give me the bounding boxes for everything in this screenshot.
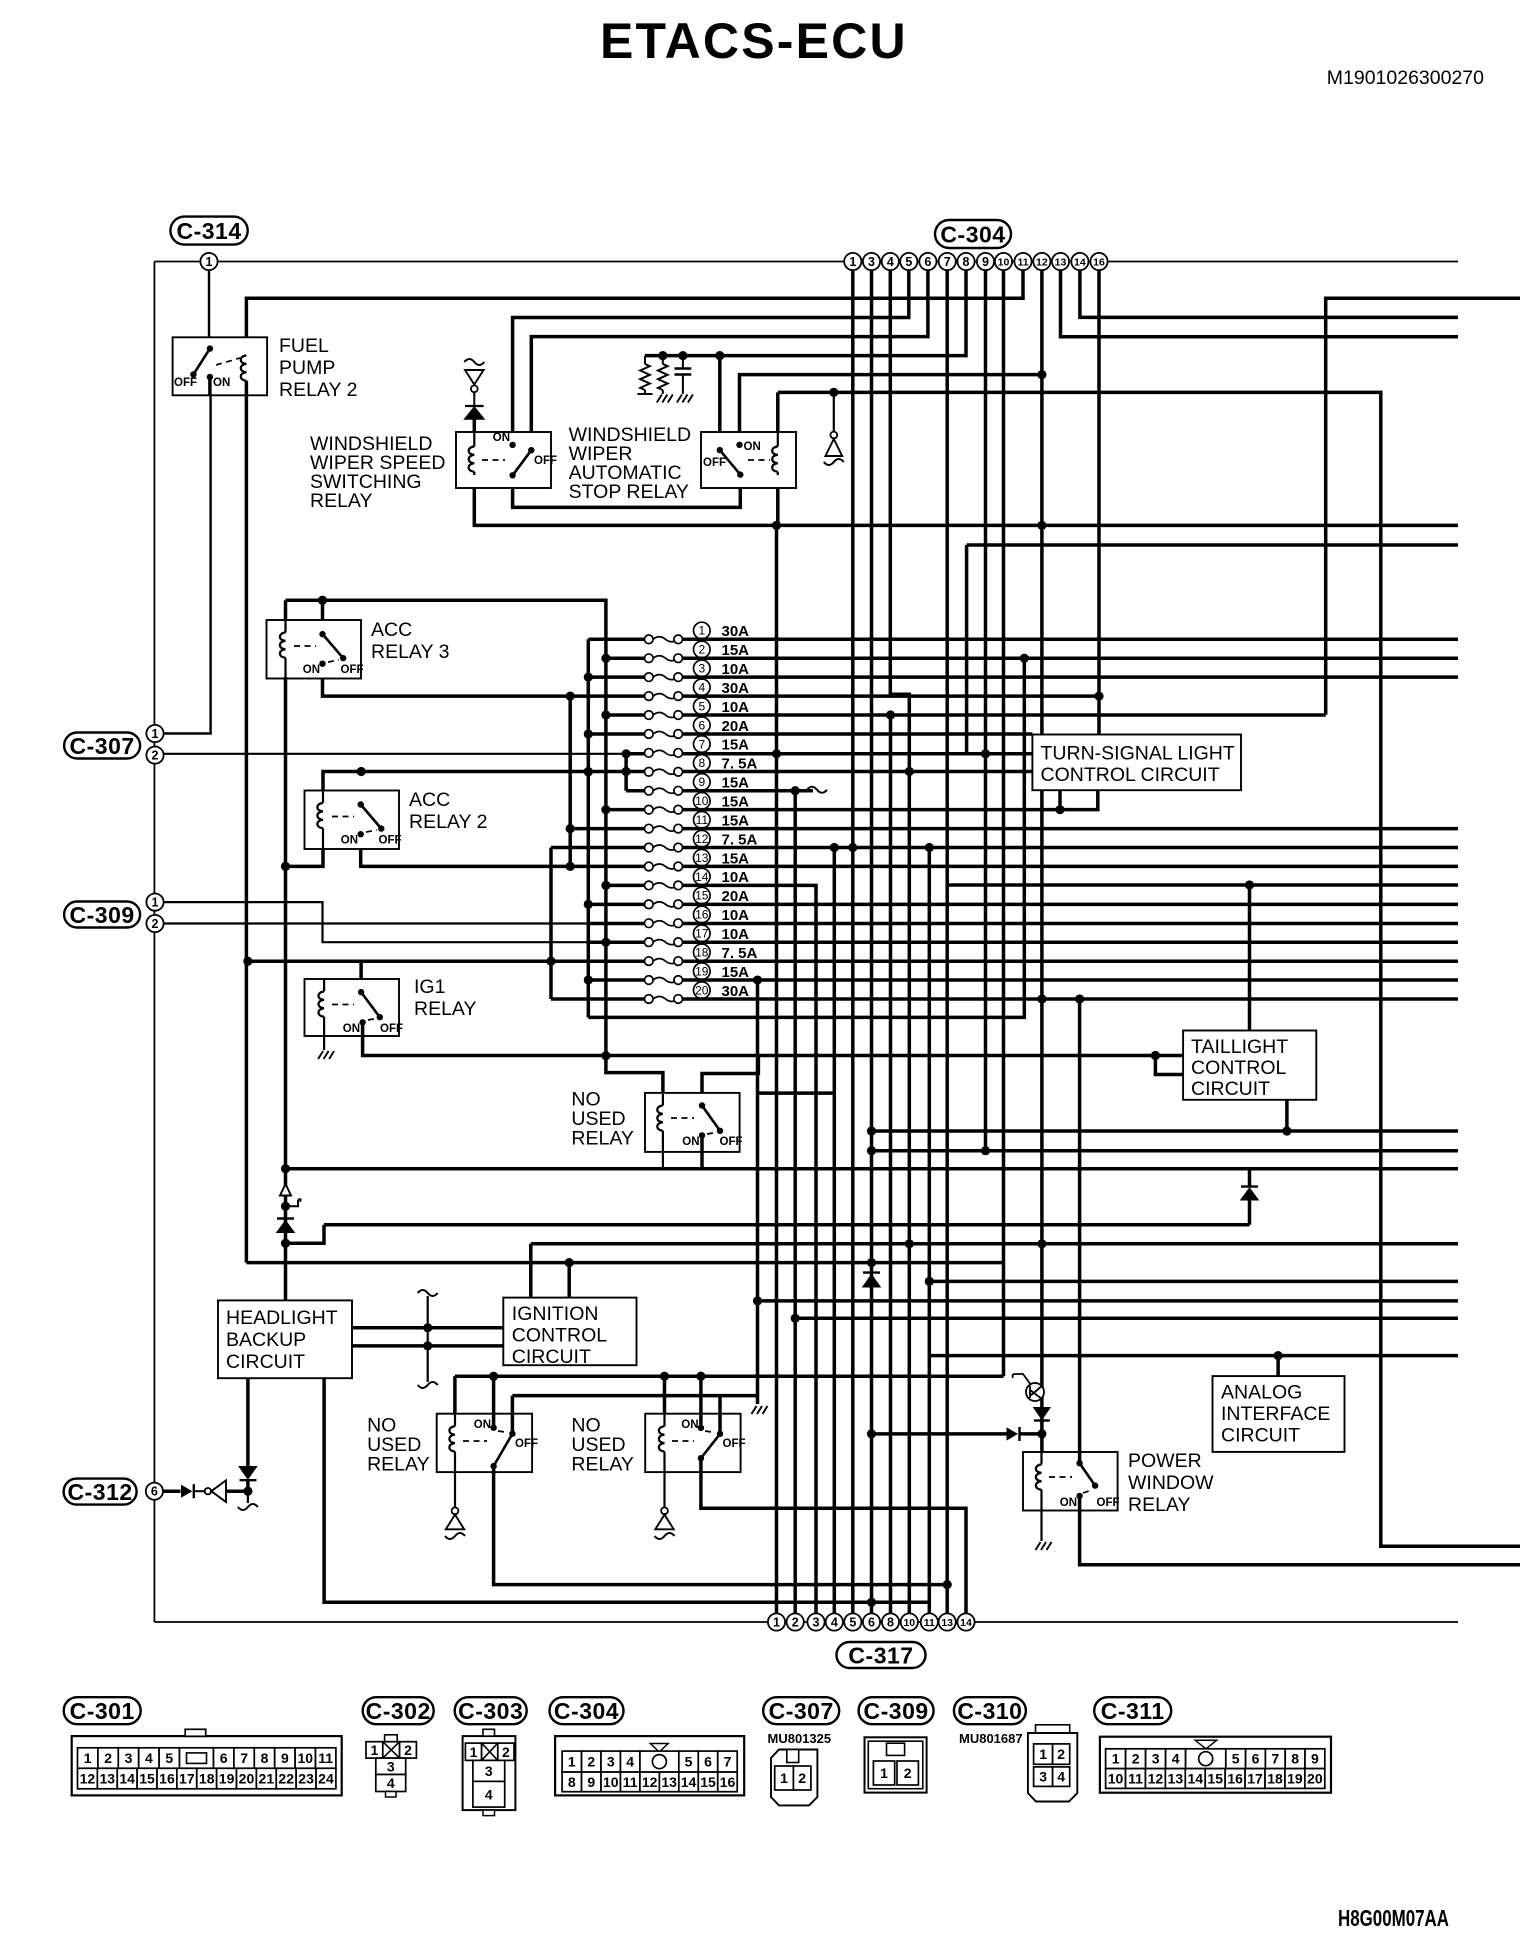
svg-text:C-307: C-307 <box>769 1698 834 1724</box>
junction <box>601 710 610 719</box>
wire power window ON to right page edge <box>1080 1496 1520 1565</box>
svg-text:ON: ON <box>744 441 761 453</box>
pin 8 <box>882 1613 899 1630</box>
junction ACC relay3 pivot drop <box>318 596 327 605</box>
fuse 10 (15A) <box>645 793 750 814</box>
wire C-304 pin16 column to turn-signal box <box>1097 270 1101 735</box>
wire relay3 pivot drop <box>718 1396 722 1434</box>
wire trunk x=626 fuse7 to fuse9 <box>624 754 628 791</box>
svg-text:6: 6 <box>924 255 931 269</box>
junction <box>584 900 593 909</box>
svg-text:CIRCUIT: CIRCUIT <box>512 1346 591 1368</box>
relay: ACC relay 3 <box>267 620 362 679</box>
wire headlight to ignition link1 <box>352 1326 503 1330</box>
svg-text:9: 9 <box>587 1774 595 1790</box>
svg-text:CONTROL: CONTROL <box>1191 1057 1286 1079</box>
svg-text:10: 10 <box>998 256 1010 268</box>
svg-text:18: 18 <box>199 1771 215 1787</box>
svg-text:8: 8 <box>261 1750 269 1766</box>
fuse 2 (15A) <box>645 641 750 662</box>
svg-text:2: 2 <box>152 749 159 763</box>
box turn-signal light control circuit <box>1032 735 1241 791</box>
fuse 3 (10A) <box>645 660 750 681</box>
connector label C-314 <box>170 217 247 245</box>
connector label C-302 <box>363 1697 434 1724</box>
junction fuse4 trunk570 <box>566 691 575 700</box>
wire top border bus y=262 <box>154 261 1458 263</box>
svg-text:OFF: OFF <box>515 1438 538 1450</box>
junction y1263 ignition box pin <box>565 1258 574 1267</box>
svg-text:RELAY: RELAY <box>367 1454 430 1476</box>
wire C-304 pin1 column x=853 <box>851 270 855 1614</box>
wire column x=776 to C-317 pin1 <box>775 525 779 1613</box>
junction y525 column1042 <box>1037 521 1046 530</box>
svg-text:ON: ON <box>493 432 510 444</box>
wire fuse3 row <box>588 675 1458 679</box>
svg-text:1: 1 <box>1039 1746 1047 1762</box>
junction column871 y1131 <box>867 1126 876 1135</box>
svg-text:7: 7 <box>1271 1751 1279 1767</box>
svg-text:4: 4 <box>1057 1769 1065 1785</box>
pin 11 <box>1014 253 1031 270</box>
fuse 14 (10A) <box>645 868 750 889</box>
svg-text:5: 5 <box>849 1616 856 1630</box>
pin 1 <box>768 1613 785 1630</box>
svg-text:10A: 10A <box>722 907 750 924</box>
no used relay 2/3 coil-bottom branch symbols <box>454 1472 456 1507</box>
svg-text:1: 1 <box>780 1770 788 1786</box>
pin 12 <box>1033 253 1050 270</box>
junction <box>584 975 593 984</box>
wire column x=966 y545 to fuse7 row <box>965 545 969 754</box>
wire fuse8 row from ACC relay2 coil to turn-signal box <box>323 772 1032 830</box>
svg-text:IG1: IG1 <box>414 976 445 998</box>
wire C-304 pin7 column x=947 <box>945 270 949 1614</box>
svg-text:10: 10 <box>603 1774 619 1790</box>
svg-text:1: 1 <box>206 255 213 269</box>
wire stop relay ON to column1042 <box>740 375 1042 445</box>
svg-text:17: 17 <box>695 927 709 941</box>
svg-text:RELAY: RELAY <box>571 1127 634 1149</box>
svg-text:ON: ON <box>681 1419 698 1431</box>
junction fuse12 column929 <box>925 843 934 852</box>
junction fuse7 trunk626 <box>622 749 631 758</box>
relay: no used relay 2 (center bottom) <box>437 1414 532 1472</box>
svg-text:MU801325: MU801325 <box>768 1731 832 1746</box>
svg-text:3: 3 <box>485 1763 493 1779</box>
wire relay3 coil drop <box>663 1376 667 1415</box>
pin 10 <box>995 253 1012 270</box>
wire C-304 pin4 column jog to x=909 <box>890 270 909 1614</box>
svg-text:ACC: ACC <box>371 619 412 641</box>
connector label C-307 bottom <box>763 1697 839 1724</box>
wire C-304 pin3 column x=871 <box>870 270 874 1614</box>
svg-text:3: 3 <box>1039 1769 1047 1785</box>
svg-text:20: 20 <box>239 1771 255 1787</box>
svg-text:1: 1 <box>568 1754 576 1770</box>
wire C-304 pin14 to right y=317 <box>1080 270 1458 317</box>
box taillight control circuit <box>1183 1031 1316 1100</box>
svg-text:2: 2 <box>587 1754 595 1770</box>
svg-text:15: 15 <box>1207 1771 1223 1787</box>
junction fuse7 column985 <box>981 749 990 758</box>
svg-text:11: 11 <box>1128 1771 1143 1787</box>
svg-text:19: 19 <box>219 1771 235 1787</box>
fuse 19 (15A) <box>645 963 750 984</box>
svg-text:BACKUP: BACKUP <box>226 1329 306 1351</box>
wire trunk x=588 <box>587 639 591 1017</box>
pin C-307-2 <box>146 747 163 764</box>
wire relay2 ON drop <box>492 1376 496 1428</box>
svg-text:14: 14 <box>681 1774 697 1790</box>
svg-text:8: 8 <box>698 756 705 770</box>
svg-text:13: 13 <box>1055 256 1067 268</box>
svg-text:1: 1 <box>849 255 856 269</box>
connector label C-304 bottom <box>550 1697 624 1724</box>
junction stop relay pivot on y=355 <box>715 351 724 360</box>
wire no-used relays feed row y=1376 <box>455 1376 1004 1415</box>
relay: ACC relay 2 <box>305 791 400 850</box>
svg-text:22: 22 <box>278 1771 294 1787</box>
wire fuse10 row to turn-signal box pins <box>606 808 1060 812</box>
svg-text:ANALOG: ANALOG <box>1221 1382 1302 1404</box>
svg-text:15A: 15A <box>722 737 750 754</box>
svg-text:18: 18 <box>1267 1771 1283 1787</box>
svg-text:13: 13 <box>661 1774 677 1790</box>
svg-text:11: 11 <box>1017 256 1028 268</box>
junction trunk286 key tap <box>281 1202 290 1211</box>
svg-text:4: 4 <box>485 1786 493 1802</box>
svg-text:12: 12 <box>695 832 709 846</box>
wire power window pivot column x=1080 <box>1078 999 1082 1463</box>
wire bus y=1301 <box>758 1299 1459 1303</box>
junction analog box pin <box>1274 1351 1283 1360</box>
ground IG1 relay coil <box>318 1051 323 1059</box>
wire fuse11 row <box>570 827 1458 831</box>
wire IG1 ON row y=1056 to taillight box <box>363 1022 1184 1055</box>
wire fuse4 row from ACC relay3 ON <box>323 664 1100 696</box>
wire no-used relay1 pivot feed from y=1056 bus <box>702 1056 758 1106</box>
connector label C-307 left <box>64 733 140 759</box>
svg-text:13: 13 <box>1168 1771 1184 1787</box>
junction fuse9 column795 <box>791 786 800 795</box>
junction y1244 column909 <box>905 1239 914 1248</box>
wire column x=929 to C-317 pin11 <box>928 848 932 1614</box>
junction <box>696 1372 705 1381</box>
svg-text:17: 17 <box>179 1771 195 1787</box>
resistor R2 <box>662 356 664 364</box>
svg-text:19: 19 <box>695 964 709 978</box>
junction fuse8 column909 <box>905 767 914 776</box>
transistor symbol on power window feed <box>1026 1383 1044 1401</box>
svg-text:OFF: OFF <box>723 1438 746 1450</box>
wire relay pivots row y=1396 <box>512 1396 757 1434</box>
svg-text:6: 6 <box>704 1754 712 1770</box>
svg-text:3: 3 <box>1152 1751 1160 1767</box>
svg-text:6: 6 <box>151 1485 158 1499</box>
fuse 15 (20A) <box>645 887 750 908</box>
svg-text:OFF: OFF <box>379 835 402 847</box>
junction fuse4 column1099 <box>1094 691 1103 700</box>
junction link2 tap <box>423 1341 432 1350</box>
junction fuse17 trunk606 <box>601 938 610 947</box>
wire fuse19 row <box>588 978 1458 982</box>
svg-text:FUEL: FUEL <box>279 335 329 357</box>
svg-text:OFF: OFF <box>703 457 726 469</box>
junction fuse13 trunk570 <box>566 862 575 871</box>
wire no-used relay1 ON to y=1169 bus <box>700 1135 704 1168</box>
fuse 8 (7.5A) <box>645 755 758 776</box>
pin 16 <box>1090 253 1107 270</box>
diode below transistor <box>1034 1408 1050 1420</box>
svg-text:ON: ON <box>1060 1497 1077 1509</box>
svg-text:CIRCUIT: CIRCUIT <box>1221 1425 1300 1447</box>
connector label C-311 <box>1094 1697 1171 1724</box>
svg-text:CONTROL: CONTROL <box>512 1325 607 1347</box>
svg-text:5: 5 <box>1232 1751 1240 1767</box>
svg-text:C-303: C-303 <box>458 1698 523 1724</box>
svg-text:4: 4 <box>698 680 705 694</box>
junction column757 y1301 <box>753 1296 762 1305</box>
svg-text:10: 10 <box>695 794 709 808</box>
svg-text:3: 3 <box>387 1758 395 1774</box>
fuse 11 (15A) <box>645 812 750 833</box>
box ignition control circuit <box>503 1298 636 1366</box>
svg-text:5: 5 <box>698 699 705 713</box>
relay: windshield wiper automatic stop relay <box>701 432 796 488</box>
svg-text:STOP RELAY: STOP RELAY <box>569 481 689 503</box>
pin 3 <box>863 253 880 270</box>
svg-text:2: 2 <box>1057 1746 1065 1762</box>
wire bus y=1225 <box>324 1223 1250 1227</box>
wire branch y=885 to right <box>947 883 1458 887</box>
svg-text:TAILLIGHT: TAILLIGHT <box>1191 1036 1288 1058</box>
svg-text:8: 8 <box>963 255 970 269</box>
svg-text:1: 1 <box>152 896 159 910</box>
junction y885 taillight drop <box>1245 880 1254 889</box>
junction trunk246 x fuse18 row <box>243 957 252 966</box>
junction y1151 column985 <box>981 1146 990 1155</box>
svg-text:1: 1 <box>880 1765 888 1781</box>
wire relay arms link U-shape <box>513 475 741 508</box>
svg-text:IGNITION: IGNITION <box>512 1303 599 1325</box>
svg-text:1: 1 <box>371 1742 379 1758</box>
pin C-307-1 <box>146 725 163 742</box>
pin 13 <box>1052 253 1069 270</box>
relay: power window relay <box>1023 1452 1118 1511</box>
svg-text:2: 2 <box>152 917 159 931</box>
fuse 4 (30A) <box>645 679 750 700</box>
svg-text:17: 17 <box>1247 1771 1263 1787</box>
wire column x=757 fuse19 to ground <box>756 980 760 1404</box>
fuse 18 (7.5A) <box>645 944 758 965</box>
junction column947 y1585 <box>943 1580 952 1589</box>
svg-text:M1901026300270: M1901026300270 <box>1327 67 1484 89</box>
svg-text:7: 7 <box>240 1750 248 1766</box>
svg-text:CIRCUIT: CIRCUIT <box>1191 1078 1270 1100</box>
wire taillight box bottom pin <box>1285 1100 1289 1131</box>
svg-text:RELAY: RELAY <box>414 998 477 1020</box>
junction link1 tap <box>423 1323 432 1332</box>
svg-text:11: 11 <box>696 813 709 827</box>
svg-text:C-309: C-309 <box>864 1698 929 1724</box>
junction fuse8 trunk626 <box>622 767 631 776</box>
wire fuse12 row <box>551 846 1458 850</box>
connector label C-309 bottom <box>859 1697 934 1724</box>
svg-text:8: 8 <box>1291 1751 1299 1767</box>
svg-text:2: 2 <box>904 1765 912 1781</box>
junction <box>601 881 610 890</box>
svg-text:4: 4 <box>145 1750 153 1766</box>
connector label C-317 bottom <box>837 1642 926 1668</box>
wire bus y=545 to right <box>967 543 1458 547</box>
svg-text:C-314: C-314 <box>176 218 241 244</box>
wire stop relay coil bottom <box>776 469 780 525</box>
wire fuse13 row from ACC relay2 ON <box>361 834 1458 866</box>
svg-text:1: 1 <box>470 1744 478 1760</box>
fuse 9 (15A) <box>645 774 750 795</box>
wire headlight backup leg to y=1602 bus <box>324 1378 929 1602</box>
svg-text:ON: ON <box>682 1136 699 1148</box>
fuse 1 (30A) <box>645 622 750 643</box>
svg-text:19: 19 <box>1287 1771 1303 1787</box>
svg-text:11: 11 <box>318 1750 333 1766</box>
wire y=1434 to power window coil <box>872 1432 1007 1436</box>
svg-text:15: 15 <box>139 1771 155 1787</box>
junction <box>584 767 593 776</box>
svg-text:10A: 10A <box>722 926 750 943</box>
svg-text:16: 16 <box>720 1774 736 1790</box>
wire ACC relay2 coil bottom to trunk286 <box>286 848 324 866</box>
svg-text:5: 5 <box>685 1754 693 1770</box>
wire C-304 pin10 column x=1003 <box>1002 270 1006 1376</box>
wire C-307 pin2 lead <box>164 753 627 755</box>
connector-branch symbol below y392 (circle, open triangle up, hook) <box>833 392 835 431</box>
pin C-309-2 <box>146 915 163 932</box>
pin 8 <box>957 253 974 270</box>
wire bus y=1169 <box>286 1167 1459 1171</box>
svg-text:ETACS-ECU: ETACS-ECU <box>600 13 908 69</box>
wire fuse5 row to right feed <box>606 713 1326 717</box>
junction <box>584 729 593 738</box>
svg-text:20: 20 <box>695 983 709 997</box>
wire drop to ignition control box pin2 <box>567 1263 571 1298</box>
relay: no used relay 1 (right of IG1) <box>645 1093 740 1152</box>
wire fuse16 row <box>588 922 1458 926</box>
wire fuse2 row <box>606 656 1458 660</box>
pin 5 <box>900 253 917 270</box>
wire trunk x=551 <box>549 848 553 999</box>
relay: windshield wiper speed switching relay <box>456 432 551 488</box>
junction trunk286 y1169 <box>281 1164 290 1173</box>
svg-text:10: 10 <box>903 1617 915 1629</box>
svg-text:7. 5A: 7. 5A <box>722 945 758 962</box>
svg-text:OFF: OFF <box>720 1136 743 1148</box>
wire stop relay pivot feed <box>718 356 722 451</box>
wire C-304 pin12 column x=1042 <box>1040 270 1044 1244</box>
pin C-312-6 <box>146 1483 163 1500</box>
wire bus y=1017 to column1024 <box>588 658 1024 1018</box>
svg-text:14: 14 <box>695 870 709 884</box>
wire fuse9 row <box>626 789 813 793</box>
wire left border bus x=154 <box>153 262 155 1623</box>
relay: no used relay 3 (right bottom) <box>645 1414 740 1472</box>
svg-text:RELAY: RELAY <box>1128 1494 1191 1516</box>
svg-text:PUMP: PUMP <box>279 357 335 379</box>
junction <box>601 654 610 663</box>
junction fuse20 column1042 <box>1037 994 1046 1003</box>
svg-text:16: 16 <box>1093 256 1105 268</box>
wire ACC relay3 pivot drop <box>321 600 325 634</box>
svg-text:6: 6 <box>698 718 705 732</box>
junction column871 y1434 <box>867 1429 876 1438</box>
pin 13 <box>939 1613 956 1630</box>
junction column795 y1318 <box>791 1314 800 1323</box>
wire bus y=1318 <box>795 1317 1458 1321</box>
wire bus y=1281 <box>929 1280 1458 1284</box>
pin 6 <box>919 253 936 270</box>
svg-text:1: 1 <box>1112 1751 1120 1767</box>
wire trunk x=570 <box>568 696 572 866</box>
svg-text:C-307: C-307 <box>70 733 135 759</box>
wire C-304 pin5 to wiper speed relay ON <box>513 270 909 445</box>
svg-text:7: 7 <box>944 255 951 269</box>
ground power window relay coil <box>1036 1542 1041 1550</box>
svg-text:13: 13 <box>695 851 709 865</box>
wire bus y=1131 <box>872 1129 1459 1133</box>
svg-text:C-317: C-317 <box>848 1642 913 1668</box>
tap stub with continuation hooks <box>427 1296 429 1382</box>
svg-text:4: 4 <box>887 255 894 269</box>
wire relay2 arm to C-317 pin13 <box>494 1466 948 1585</box>
svg-text:14: 14 <box>1074 256 1086 268</box>
fuse 6 (20A) <box>645 717 750 738</box>
connector label C-310 <box>954 1697 1026 1724</box>
svg-text:ON: ON <box>303 664 320 676</box>
svg-text:RELAY 3: RELAY 3 <box>371 641 449 663</box>
junction fuse8 trunk588 <box>584 767 593 776</box>
pin 5 <box>844 1613 861 1630</box>
wire ignition box pin1 row y=1244 <box>531 1244 1458 1298</box>
svg-text:2: 2 <box>1132 1751 1140 1767</box>
wire column x=795 to C-317 pin2 <box>793 791 797 1614</box>
svg-text:14: 14 <box>960 1617 972 1629</box>
junction y525 stop relay coil <box>772 521 781 530</box>
svg-text:7: 7 <box>698 737 705 751</box>
svg-text:2: 2 <box>698 643 705 657</box>
svg-text:ACC: ACC <box>409 789 450 811</box>
svg-text:6: 6 <box>868 1616 875 1630</box>
svg-text:18: 18 <box>695 946 709 960</box>
diode on column871 <box>863 1271 880 1273</box>
svg-text:4: 4 <box>1172 1751 1180 1767</box>
svg-text:RELAY: RELAY <box>310 490 373 512</box>
svg-text:16: 16 <box>1227 1771 1243 1787</box>
wire headlight to ignition link2 <box>352 1344 503 1348</box>
pin 1 <box>844 253 861 270</box>
junction y392 branch symbol <box>829 388 838 397</box>
svg-text:C-312: C-312 <box>68 1479 133 1505</box>
wire diode to wiper speed relay coil <box>473 419 477 433</box>
svg-text:12: 12 <box>1036 256 1048 268</box>
junction fuse8 ACC relay2 pivot drop <box>357 767 366 776</box>
wire y=392 bus to right column1381 to bottom right exit <box>778 392 1520 1546</box>
C-312 pin6 wire with diode and buzzer symbol <box>163 1489 181 1493</box>
junction fuse19 column757 <box>753 975 762 984</box>
wire fuel pump coil trunk x=246 <box>245 378 249 1263</box>
junction fuse5 column890 <box>886 710 895 719</box>
wire fuse6 row to turn-signal box <box>588 732 1032 736</box>
